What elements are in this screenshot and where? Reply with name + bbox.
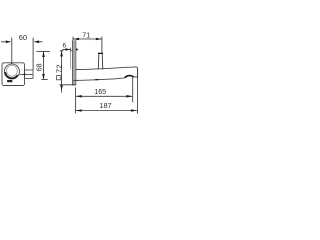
dim 6 arrows bbox=[65, 48, 70, 51]
spout top bbox=[76, 67, 136, 70]
dim 6 line right bbox=[73, 48, 79, 50]
spout tip right edge bbox=[136, 67, 138, 77]
lever junction dot bbox=[24, 73, 26, 75]
dim 60 left ext bbox=[11, 38, 13, 65]
square symbol of sq72 bbox=[57, 76, 61, 80]
dim 187 arrows bbox=[76, 109, 82, 112]
wall band bbox=[73, 40, 76, 85]
dim 6 line left bbox=[62, 48, 70, 50]
svg-text:165: 165 bbox=[94, 89, 106, 96]
spout underside bbox=[74, 78, 124, 80]
svg-text:71: 71 bbox=[82, 33, 90, 40]
dim 71 right ext bbox=[101, 37, 103, 53]
spout underside tip segment bbox=[134, 76, 137, 78]
dim 60 line left tail bbox=[1, 41, 6, 43]
front view plate bbox=[2, 63, 25, 86]
escutcheon top edge bbox=[70, 50, 72, 52]
dim 165 line bbox=[76, 95, 132, 97]
dim sq72 bottom ext bbox=[59, 84, 76, 86]
lever midline bbox=[19, 73, 33, 75]
handle dark bottom arc bbox=[5, 72, 18, 78]
dim 68 arrows bbox=[42, 52, 45, 57]
svg-text:72: 72 bbox=[54, 65, 63, 73]
handle tab bbox=[7, 80, 12, 82]
handle inner circle bbox=[6, 65, 17, 76]
dim 187 right ext + spout edge bbox=[137, 69, 139, 114]
dim 6 left ext bbox=[69, 48, 71, 51]
wall right edge bbox=[75, 40, 77, 85]
dims 165 187 left ext bbox=[75, 88, 77, 114]
wall left edge bbox=[72, 40, 74, 85]
dim sq72 top arrow bbox=[60, 51, 63, 56]
aerator arc bbox=[124, 76, 133, 78]
dim sq72 bottom arrow bbox=[60, 85, 63, 90]
escutcheon face bbox=[69, 51, 71, 70]
dim 60 line right tail bbox=[39, 41, 43, 43]
lens blob bbox=[94, 79, 100, 80]
nozzle stem bbox=[97, 54, 100, 69]
lever rectangle bbox=[25, 70, 34, 78]
dim 165 arrows bbox=[76, 95, 82, 98]
svg-text:187: 187 bbox=[99, 101, 111, 110]
dim sq72 top tick bbox=[60, 50, 64, 52]
dim 68 line bbox=[43, 52, 45, 80]
dim 71 left ext bbox=[72, 37, 74, 41]
handle outer circle bbox=[4, 64, 19, 79]
dim 68 bottom tick bbox=[41, 78, 47, 80]
dim 60 arrows bbox=[6, 41, 12, 44]
dim 71 line bbox=[73, 38, 102, 40]
dim sq72 line bbox=[61, 50, 63, 93]
dim 71 arrows bbox=[73, 38, 79, 41]
dim 60 right ext + lever edge bbox=[32, 38, 34, 70]
nozzle cap bbox=[98, 53, 103, 54]
dim 165 right ext bbox=[132, 77, 134, 102]
dim 187 line bbox=[76, 110, 137, 112]
svg-text:6: 6 bbox=[62, 43, 66, 50]
dim 68 top tick bbox=[36, 50, 50, 52]
svg-text:60: 60 bbox=[19, 33, 27, 42]
svg-text:68: 68 bbox=[36, 63, 43, 71]
